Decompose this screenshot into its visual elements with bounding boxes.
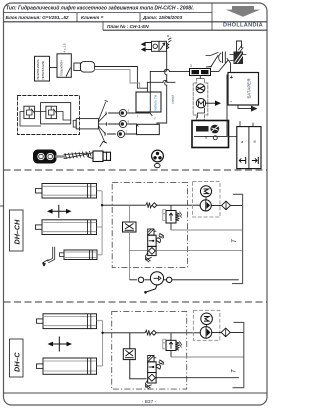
collector line [102,321,104,366]
lift cylinder 2 [36,220,97,235]
starter contactor [234,52,244,65]
hand control unit [33,150,57,164]
relay K2 [24,106,35,118]
contactor coil loop [237,41,242,52]
svg-text:кабель 7м: кабель 7м [154,94,158,110]
port cylinder 1 [97,320,103,322]
solenoid lowering valve Dg [146,229,166,262]
relay wiring [35,112,71,121]
tilt cylinder 3 [60,250,98,260]
port cylinder 3 [97,254,102,256]
hand pump suction line [130,279,239,281]
platform motion arrow [50,343,71,345]
pump unit box [192,121,229,148]
logo mark [226,6,261,17]
socket face [152,150,164,162]
section divider electrical / DH-CH [4,169,268,171]
svg-text:ПИТАНИЯ КАБ: ПИТАНИЯ КАБ [41,61,45,80]
lower connector box X2 [137,124,160,134]
hand pump [150,272,163,285]
wire to terminal strip [146,82,148,92]
port cylinder 1 [97,190,103,192]
inner box around relay K3 [41,103,71,124]
pump [200,327,212,339]
feed wire to fuse [150,71,189,73]
motor output arrow [206,102,215,104]
lowering valve solenoid V1 [142,34,171,51]
relief valve [170,333,172,341]
collector line [101,191,103,255]
fuse F1 [190,69,211,76]
main pressure line [102,204,201,206]
relay K3 [46,106,57,118]
solenoid lowering valve Dg [146,356,166,390]
throttle check valve [146,203,152,208]
hand pump lever [147,285,158,292]
plug connector [89,153,94,159]
terminal strip X1 [136,92,161,112]
relief valve [170,205,172,210]
motor M [196,99,205,108]
vertical cell line x77 [76,13,78,22]
wire S1 to S2 [50,67,58,69]
control cable stub [57,155,65,157]
lift cylinder 2 [37,358,97,374]
relief return line [171,229,243,231]
vertical cell line x103 [102,22,104,30]
power pack enclosure [112,182,187,267]
coil symbol left [242,158,246,164]
svg-text:DH–CH: DH–CH [13,219,22,245]
valve line to tank [130,250,243,252]
motor M [200,186,211,197]
coil symbol right [252,158,258,164]
relief return line [171,356,244,358]
wire to coil box [229,122,254,137]
svg-text:ВЫКЛЮЧАТЕЛЬ: ВЫКЛЮЧАТЕЛЬ [36,59,40,80]
battery cable pair [95,67,148,89]
section divider DH-CH / DH-C [4,301,268,303]
fold mark left [0,205,4,207]
cabin switch box S1 [35,56,50,81]
wire fuse to switch [211,61,228,72]
vertical cell line x140 [139,13,141,22]
cable connector K1 [74,63,81,71]
connector wire 1 [109,113,153,116]
svg-text:Тип: Гидравлический лифт кассе: Тип: Гидравлический лифт кассетного задв… [6,5,194,12]
valve line to tank [156,377,239,379]
spiral cable [64,151,91,158]
hand pump check valve left [138,277,143,282]
platform motion arrow [49,210,70,212]
svg-text:a: a [167,34,169,38]
connector wire 2 [109,124,139,126]
main pressure line [103,332,201,334]
motor pump unit box [193,310,219,340]
tank bracket [232,194,243,283]
svg-text:ГЛ.ВЫКЛЮЧ: ГЛ.ВЫКЛЮЧ [60,60,64,76]
vertical cell line x212 logo cell [211,3,213,30]
svg-text:синий: синий [171,95,175,104]
motor pump unit box [193,182,221,218]
pump bracket [198,108,205,118]
svg-text:БАТАРЕЯ: БАТАРЕЯ [247,79,252,99]
tank bracket [233,322,244,387]
tick above connector [100,142,107,147]
port cylinder 2 [97,365,103,367]
filter [221,328,230,337]
pilot check valve [129,333,131,349]
motor M [201,313,213,325]
battery B1 [228,73,259,106]
throttle check valve [145,330,151,335]
pump to filter line [211,204,242,206]
svg-text:+: + [230,75,234,81]
svg-text:3: 3 [190,64,192,68]
DH-C section label [10,339,24,377]
pump [200,200,211,211]
filter [222,201,231,210]
title block line under row1 [4,12,213,14]
pump to filter line [212,331,244,333]
svg-text:Дата: 15/05/2003: Дата: 15/05/2003 [142,15,182,20]
svg-text:4 x 1,5: 4 x 1,5 [63,43,67,52]
pressure switch contacts [207,56,219,68]
tilt arrow symbol [47,247,55,263]
lift cylinder 1 [37,314,97,329]
pilot check valve [129,205,131,222]
svg-text:DH–C: DH–C [13,352,22,372]
title block line under row2 [4,21,268,23]
svg-text:DHOLLANDIA: DHOLLANDIA [223,23,263,29]
starter solenoid S [196,84,205,93]
hand pump check valve right [167,277,172,282]
svg-text:- B37 -: - B37 - [142,399,157,405]
wire battery side down to pump unit [194,75,227,136]
main switch S2 [57,54,71,78]
bottom border of schematic [4,392,268,394]
lift cylinder 1 [36,184,97,199]
connector wire 3 [108,133,137,135]
title block line under row3 [103,29,267,31]
control relay dashed box [18,96,80,135]
feed wire riser [149,72,151,92]
battery minus chassis arrow [238,105,251,109]
svg-text:План № : CH-1-EN: План № : CH-1-EN [107,24,149,29]
wire valve to strip [157,51,167,124]
harness trumpet [73,120,76,127]
DH-CH section label [10,210,24,251]
power pack enclosure [112,312,187,390]
svg-text:-: - [230,100,232,106]
motor unit outline [193,79,208,121]
port cylinder 2 [97,226,103,228]
svg-text:Блок питания: G=V251...52: Блок питания: G=V251...52 [6,15,69,20]
solenoid coil box [237,127,261,169]
svg-text:Клиент =: Клиент = [81,15,104,20]
battery plus wire [227,59,231,73]
wire fuse to motor [199,76,201,79]
